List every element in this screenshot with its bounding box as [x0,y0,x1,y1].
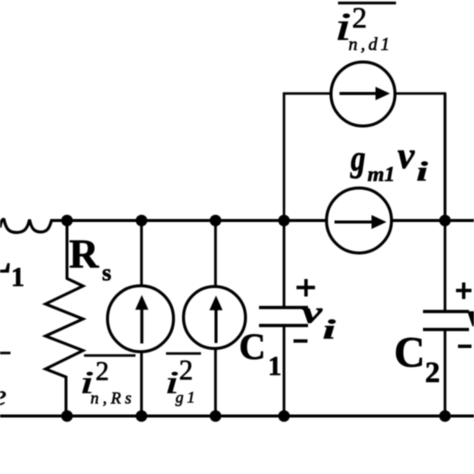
svg-text:n,d1: n,d1 [349,34,393,54]
svg-text:2: 2 [179,356,193,387]
svg-text:n,Rs: n,Rs [91,389,136,408]
svg-text:m1: m1 [368,162,395,186]
svg-text:2: 2 [425,356,440,389]
svg-text:L: L [0,233,11,282]
svg-text:g1: g1 [176,390,199,407]
svg-text:v: v [398,135,416,177]
svg-text:v: v [302,296,323,330]
svg-text:g: g [350,138,366,179]
svg-text:e: e [0,379,6,412]
svg-text:2: 2 [96,356,110,386]
svg-text:v: v [467,299,474,333]
svg-text:i: i [323,315,336,345]
svg-text:C: C [394,330,425,377]
svg-text:i: i [417,157,429,187]
svg-text:2: 2 [352,2,367,35]
svg-text:C: C [239,327,266,368]
svg-text:R: R [69,231,99,277]
svg-text:s: s [102,261,111,287]
svg-text:1: 1 [11,262,25,292]
svg-text:1: 1 [268,351,282,381]
